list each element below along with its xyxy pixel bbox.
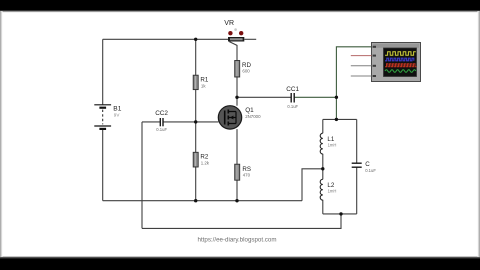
svg-text:VR: VR bbox=[224, 20, 234, 27]
wire drain node to CC1 left plate bbox=[237, 96, 291, 98]
trace A yellow bbox=[385, 52, 416, 55]
resistor R1 bbox=[193, 75, 209, 89]
wire VR right stub bbox=[244, 38, 256, 40]
letterbox top bar bbox=[0, 0, 480, 10]
wire R2 top lead bbox=[195, 122, 197, 152]
wire Q1 source to RS bbox=[236, 129, 238, 164]
svg-text:470: 470 bbox=[243, 173, 251, 178]
resistor RD bbox=[235, 61, 252, 78]
potentiometer VR bbox=[224, 20, 244, 42]
wire L1 top lead bbox=[322, 119, 324, 133]
resistor R2 bbox=[193, 152, 210, 167]
wire R1 top lead bbox=[195, 39, 197, 75]
capacitor CC2 bbox=[155, 110, 168, 132]
soft left edge bbox=[0, 11, 3, 257]
svg-text:0.1uF: 0.1uF bbox=[365, 168, 376, 173]
oscilloscope XSC1 bbox=[351, 43, 421, 82]
trace C red bbox=[385, 64, 417, 67]
pin D stub bbox=[351, 75, 372, 77]
junction node scope net bbox=[335, 96, 338, 99]
svg-text:CC2: CC2 bbox=[155, 110, 168, 117]
trace D green bbox=[385, 70, 416, 73]
pin marks bbox=[373, 46, 376, 48]
junction node drain bbox=[235, 96, 238, 99]
wire L2 bottom lead bbox=[322, 200, 324, 214]
wire VR wiper to RD bbox=[229, 42, 237, 61]
battery B1 bbox=[94, 105, 121, 129]
wire tank bottom span bbox=[323, 213, 357, 215]
wire tap to L2 top bbox=[322, 169, 324, 180]
svg-text:0.1uF: 0.1uF bbox=[287, 104, 298, 109]
svg-text:1k: 1k bbox=[201, 84, 206, 89]
svg-text:0.1uF: 0.1uF bbox=[156, 127, 167, 132]
wire C top lead bbox=[356, 119, 358, 162]
junction node RS ground bbox=[235, 199, 238, 202]
svg-text:B1: B1 bbox=[113, 106, 121, 113]
wire RD bottom to drain node bbox=[236, 77, 238, 97]
inductor L1 bbox=[320, 133, 336, 154]
svg-text:2N7000: 2N7000 bbox=[245, 114, 261, 119]
inductor L2 bbox=[320, 179, 336, 200]
wire tank top span bbox=[323, 118, 357, 120]
letterbox bottom bar bbox=[0, 256, 480, 258]
capacitor C bbox=[352, 161, 377, 173]
wire CC1 to scope net (green) bbox=[294, 47, 371, 120]
wire CC2 left lead bbox=[142, 121, 160, 123]
wire R1 bottom lead to gate rail bbox=[195, 90, 197, 122]
junction node R1 top bbox=[194, 38, 197, 41]
pin C stub bbox=[351, 65, 372, 67]
junction node R2 ground bbox=[194, 199, 197, 202]
junction node tap bbox=[321, 167, 324, 170]
pin B stub bbox=[351, 55, 372, 57]
capacitor CC1 bbox=[286, 86, 299, 109]
wire feedback bottom run bbox=[142, 214, 341, 229]
transistor Q1 bbox=[218, 106, 261, 129]
wire CC2 feedback drop bbox=[141, 122, 143, 228]
trace B blue bbox=[385, 58, 414, 61]
svg-text:9V: 9V bbox=[114, 113, 121, 118]
wire top rail B1+ to VR left bbox=[103, 38, 228, 40]
wire RS bottom lead bbox=[236, 180, 238, 201]
wire left rail bottom (B1 minus lead) bbox=[102, 130, 104, 201]
wire ground rail riser to tank tap bbox=[302, 169, 323, 201]
wire R2 bottom lead bbox=[195, 167, 197, 201]
junction node tank top bbox=[335, 118, 338, 121]
resistor RS bbox=[235, 164, 251, 180]
wire left rail top (B1 plus lead) bbox=[102, 39, 104, 104]
junction node tank bottom bbox=[339, 212, 342, 215]
wire drain node to Q1 drain bbox=[236, 97, 238, 105]
wire gate rail CC2 to Q1 gate bbox=[163, 121, 218, 123]
soft right edge bbox=[478, 11, 480, 257]
svg-text:1mH: 1mH bbox=[328, 188, 337, 193]
svg-text:1mH: 1mH bbox=[328, 142, 337, 147]
svg-text:600: 600 bbox=[242, 69, 250, 74]
svg-text:1.2k: 1.2k bbox=[201, 160, 210, 165]
svg-text:R1: R1 bbox=[200, 76, 208, 83]
wire C bottom lead bbox=[356, 168, 358, 214]
wire bottom ground rail bbox=[103, 200, 302, 202]
svg-text:CC1: CC1 bbox=[286, 86, 299, 93]
svg-text:https://ee-diary.blogspot.com: https://ee-diary.blogspot.com bbox=[198, 237, 277, 244]
svg-text:C: C bbox=[365, 161, 370, 168]
junction node gate bbox=[194, 120, 197, 123]
wire L1 bottom to tap bbox=[322, 154, 324, 169]
